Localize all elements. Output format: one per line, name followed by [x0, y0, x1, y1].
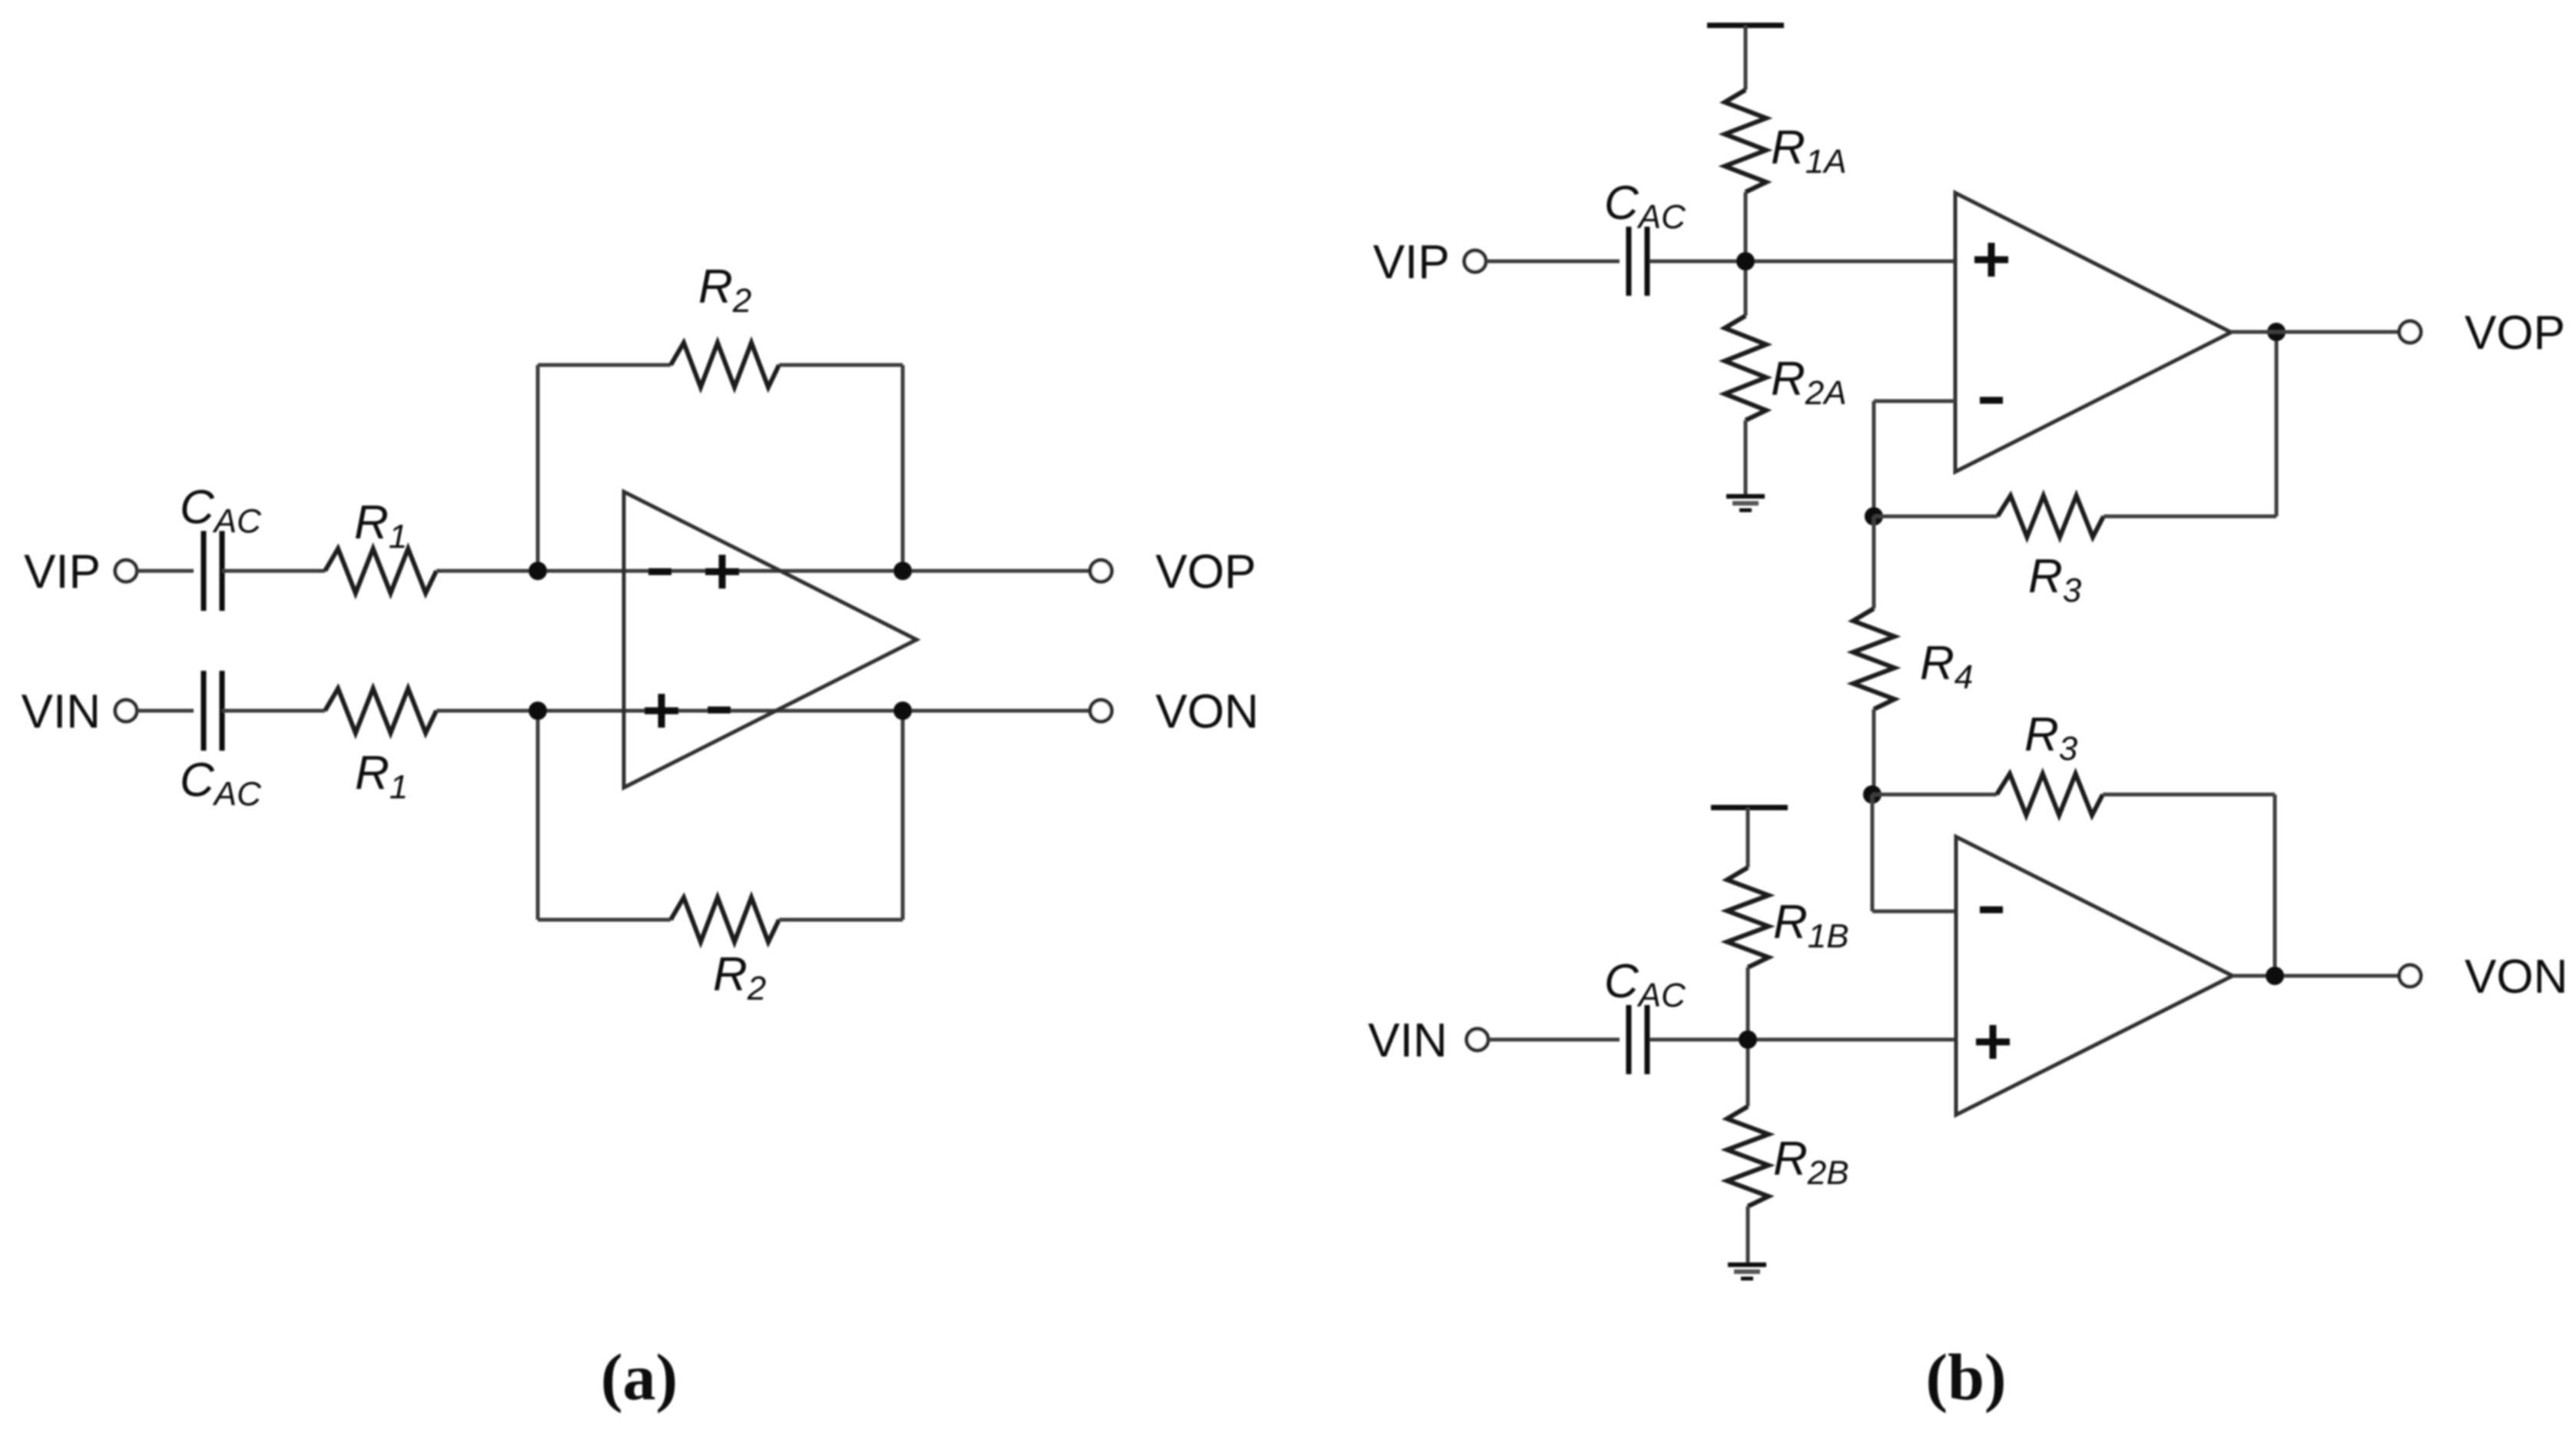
- svg-text:VON: VON: [2465, 950, 2568, 1003]
- svg-text:R3: R3: [2024, 708, 2078, 768]
- svg-text:R2B: R2B: [1773, 1133, 1849, 1192]
- svg-text:R1A: R1A: [1771, 121, 1847, 181]
- svg-text:(b): (b): [1925, 1340, 2006, 1414]
- svg-text:VOP: VOP: [2465, 307, 2565, 360]
- svg-text:R3: R3: [2028, 550, 2082, 609]
- svg-text:VIP: VIP: [24, 546, 101, 599]
- svg-text:CAC: CAC: [180, 754, 262, 813]
- svg-text:R1: R1: [355, 747, 408, 806]
- svg-text:R2: R2: [713, 948, 766, 1007]
- svg-text:CAC: CAC: [1604, 177, 1686, 236]
- svg-text:CAC: CAC: [180, 481, 262, 540]
- svg-text:CAC: CAC: [1604, 955, 1686, 1014]
- svg-text:R1B: R1B: [1773, 896, 1849, 955]
- svg-text:VOP: VOP: [1155, 546, 1256, 599]
- svg-text:R1: R1: [354, 496, 407, 556]
- svg-text:(a): (a): [601, 1340, 678, 1414]
- svg-text:VON: VON: [1155, 685, 1258, 738]
- svg-text:R2: R2: [698, 260, 751, 320]
- svg-text:VIP: VIP: [1373, 236, 1450, 289]
- svg-text:R4: R4: [1920, 637, 1973, 696]
- svg-text:VIN: VIN: [1368, 1014, 1447, 1067]
- svg-text:VIN: VIN: [22, 685, 101, 738]
- svg-text:R2A: R2A: [1771, 353, 1847, 412]
